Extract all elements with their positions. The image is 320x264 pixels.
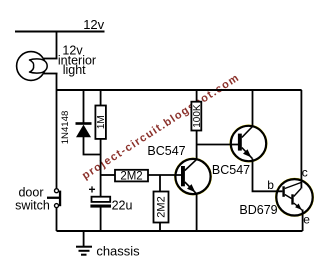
svg-text:switch: switch (15, 198, 50, 212)
svg-text:100K: 100K (192, 104, 203, 128)
svg-text:12v: 12v (83, 17, 104, 32)
svg-text:light: light (63, 63, 86, 77)
svg-text:c: c (302, 166, 308, 180)
svg-text:2M2: 2M2 (156, 196, 168, 217)
svg-text:b: b (267, 178, 274, 192)
svg-text:1N4148: 1N4148 (60, 111, 71, 145)
svg-text:BC547: BC547 (212, 163, 250, 177)
svg-text:e: e (303, 213, 310, 227)
svg-text:chassis: chassis (96, 244, 140, 259)
svg-text:BD679: BD679 (239, 203, 277, 217)
svg-text:+: + (88, 183, 95, 197)
svg-text:BC547: BC547 (147, 144, 185, 158)
svg-text:1M: 1M (96, 115, 107, 129)
svg-text:2M2: 2M2 (120, 171, 142, 183)
svg-text:22u: 22u (112, 199, 133, 213)
